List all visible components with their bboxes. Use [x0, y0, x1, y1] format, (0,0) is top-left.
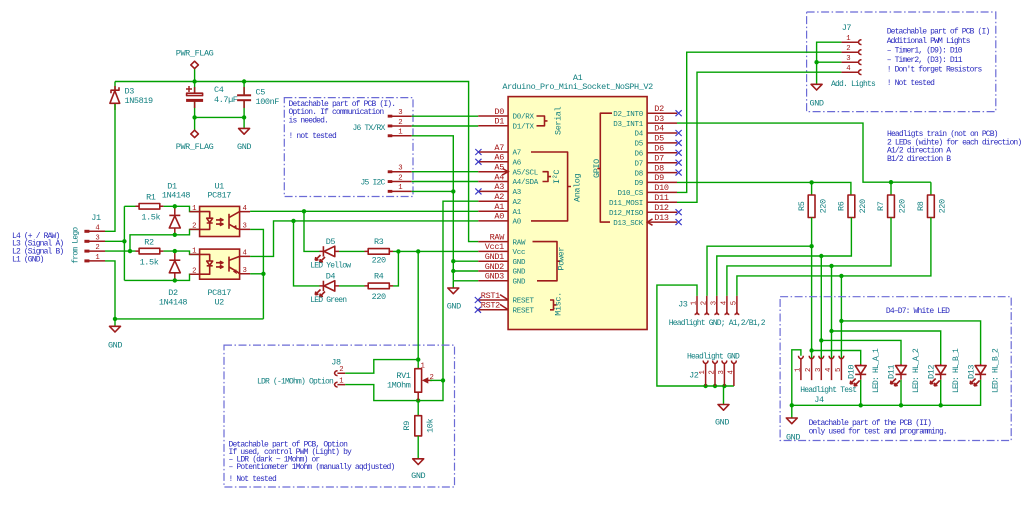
- svg-text:only used for test and program: only used for test and programming.: [809, 428, 947, 437]
- wire R1 to U1 pin1: [163, 206, 199, 211]
- ground GND below Arduino GND pins: [447, 281, 461, 312]
- svg-text:B1/2 direction B: B1/2 direction B: [887, 155, 951, 164]
- svg-text:1MOhm: 1MOhm: [387, 381, 411, 391]
- svg-text:Analog: Analog: [572, 173, 582, 202]
- power flag PWR_FLAG bottom: [176, 130, 214, 152]
- junction A1 to D5 branch: [302, 209, 306, 213]
- connector J8: [331, 357, 345, 387]
- svg-text:3: 3: [710, 301, 718, 305]
- svg-text:2: 2: [339, 366, 343, 374]
- junction J2 rail pin2: [713, 384, 717, 388]
- no-connect x at A6: [475, 159, 481, 165]
- svg-text:1: 1: [95, 254, 100, 262]
- junction GND at x115: [113, 317, 117, 321]
- junction Signal B at J1 pin2: [128, 249, 132, 253]
- wire net Vcc: [393, 250, 478, 252]
- wire net A1 from U1 pin4: [250, 210, 478, 212]
- svg-text:1: 1: [699, 370, 707, 375]
- svg-text:220: 220: [372, 255, 386, 265]
- svg-text:D2: D2: [654, 104, 664, 114]
- svg-text:RV1: RV1: [396, 371, 410, 381]
- svg-text:A3: A3: [494, 182, 504, 192]
- capacitor C4 4.7uF: [186, 85, 238, 108]
- svg-text:PC817: PC817: [207, 288, 231, 298]
- svg-text:! Not tested: ! Not tested: [887, 79, 935, 88]
- svg-text:5: 5: [730, 301, 738, 305]
- LED D12 HL_B_1: [926, 348, 960, 393]
- svg-text:D3: D3: [125, 86, 135, 96]
- svg-text:A7: A7: [513, 150, 522, 158]
- wire R4 up to Vcc: [393, 251, 398, 286]
- resistor R7 220: [876, 195, 908, 218]
- svg-text:3: 3: [95, 234, 99, 242]
- A1 group bracket GPIO: [592, 113, 612, 222]
- wire net D3 to R7 R8 rail: [677, 123, 931, 195]
- wire ground stub J2: [723, 386, 725, 405]
- junction J7 GND: [814, 60, 818, 64]
- svg-text:1: 1: [846, 35, 851, 43]
- wire RV1 wiper to bottom node: [418, 380, 443, 400]
- svg-text:1: 1: [398, 129, 403, 137]
- svg-text:A7: A7: [494, 143, 504, 153]
- junction GND vertical at GND1: [451, 259, 455, 263]
- svg-text:D10: D10: [654, 183, 669, 193]
- svg-text:GND: GND: [447, 302, 461, 312]
- svg-text:1: 1: [192, 205, 197, 213]
- note text Lego wire legend: [12, 232, 63, 265]
- svg-text:D7: D7: [634, 160, 643, 168]
- svg-text:Add. Lights: Add. Lights: [831, 80, 876, 89]
- wire net D0 from J6 pin3: [412, 115, 479, 117]
- LED D10 HL_A_1: [846, 348, 880, 393]
- junction D9 rail at R5: [809, 180, 813, 184]
- diode D1 1N4148: [162, 181, 191, 235]
- junction J2 rail pin3: [722, 384, 726, 388]
- wire net Signal B: [105, 229, 200, 251]
- junction rail at D11: [899, 403, 903, 407]
- svg-text:2: 2: [709, 370, 717, 374]
- connector J2: [689, 361, 736, 387]
- junction Signal A at J1 pin3: [122, 239, 126, 243]
- A1 pin names right: [609, 111, 644, 228]
- svg-text:from Lego: from Lego: [72, 227, 81, 264]
- no-connect x at D4: [676, 130, 682, 136]
- no-connect x at D13: [676, 219, 682, 225]
- svg-text:Detachable part of PCB (I): Detachable part of PCB (I): [887, 27, 990, 36]
- svg-text:A6: A6: [513, 160, 522, 168]
- svg-text:1N4148: 1N4148: [162, 190, 191, 200]
- svg-text:A1: A1: [513, 209, 522, 217]
- svg-text:D4: D4: [654, 124, 664, 134]
- svg-text:GND: GND: [786, 433, 800, 443]
- connector J1: [84, 213, 105, 262]
- wire J7 pin1 and pin3 to GND: [817, 42, 842, 84]
- svg-text:Headlight GND; A1,2/B1,2: Headlight GND; A1,2/B1,2: [669, 319, 766, 328]
- svg-text:D12: D12: [926, 365, 936, 379]
- junction C4 bottom: [192, 115, 196, 119]
- svg-text:L1 (GND): L1 (GND): [12, 256, 44, 265]
- note text detachable PWM lights: [887, 27, 990, 88]
- svg-text:1.5k: 1.5k: [140, 257, 159, 267]
- wire D5 to R3: [339, 250, 365, 252]
- resistor R3 220: [365, 237, 394, 265]
- svg-text:C5: C5: [256, 87, 266, 97]
- no-connect x at RST1: [475, 297, 481, 303]
- diode D2 1N4148: [159, 251, 188, 308]
- junction R5 net at D10 branch: [809, 348, 813, 352]
- svg-text:3: 3: [398, 109, 402, 117]
- svg-text:4: 4: [825, 367, 833, 372]
- svg-text:2: 2: [846, 45, 850, 53]
- svg-text:1: 1: [192, 248, 197, 256]
- svg-text:2: 2: [398, 174, 402, 182]
- A1 group bracket Power: [533, 242, 567, 281]
- svg-text:4: 4: [727, 370, 735, 375]
- ground GND in J4 box: [786, 418, 800, 443]
- clock chevron at pin D13: [647, 219, 652, 225]
- junction RV1 bottom node: [416, 398, 420, 402]
- resistor R4 220: [365, 271, 394, 302]
- junction D2 bottom: [173, 278, 177, 282]
- svg-text:J5 I2C: J5 I2C: [360, 179, 385, 188]
- svg-text:R6: R6: [836, 201, 846, 211]
- ground GND below J2: [715, 405, 729, 428]
- svg-text:3: 3: [398, 165, 402, 173]
- svg-text:2: 2: [398, 119, 402, 127]
- svg-text:LED: HL_B_2: LED: HL_B_2: [992, 348, 1001, 393]
- svg-text:GND: GND: [108, 341, 122, 351]
- svg-text:1: 1: [421, 362, 426, 370]
- svg-text:2: 2: [192, 223, 196, 231]
- LED D5 yellow: [310, 237, 351, 271]
- svg-text:2: 2: [700, 301, 708, 305]
- A1 right pins: [647, 113, 677, 222]
- LED D13 HL_B_2: [966, 348, 1000, 393]
- svg-text:A4/SDA: A4/SDA: [513, 179, 539, 187]
- wire net A2 to RV1 wiper: [443, 201, 478, 380]
- svg-text:100nF: 100nF: [256, 97, 280, 107]
- svg-text:PC817: PC817: [207, 190, 231, 200]
- wire R7 net to J3 pin4 and J4: [727, 218, 941, 365]
- wire net GND bottom-left: [105, 261, 263, 326]
- svg-text:– Timer2, (D3): D11: – Timer2, (D3): D11: [887, 56, 963, 65]
- wire R8 net to J3 pin5 and J4: [737, 218, 981, 365]
- svg-text:D1: D1: [494, 117, 504, 127]
- LED D11 HL_A_2: [887, 348, 921, 393]
- junction R6 net split: [819, 254, 823, 258]
- junction J2 rail pin1: [703, 384, 707, 388]
- svg-text:LED: HL_A_2: LED: HL_A_2: [912, 348, 921, 393]
- svg-text:LDR (-1MOhm) Option: LDR (-1MOhm) Option: [257, 377, 334, 386]
- dashed option box J8 LDR: [224, 345, 455, 487]
- net label RST2 with tail: [481, 301, 508, 311]
- svg-text:J7: J7: [842, 23, 852, 33]
- svg-text:2: 2: [95, 244, 99, 252]
- svg-text:D11: D11: [654, 193, 669, 203]
- svg-text:4: 4: [720, 300, 728, 305]
- svg-text:A4: A4: [494, 172, 504, 182]
- svg-text:D8: D8: [654, 163, 664, 173]
- wire RAW top rail: [115, 68, 478, 241]
- svg-text:1: 1: [398, 184, 403, 192]
- svg-text:1N5819: 1N5819: [125, 96, 154, 106]
- wire net A0 from U2 pin4: [250, 221, 478, 257]
- svg-text:D13: D13: [966, 365, 976, 379]
- junction rail at D10: [859, 403, 863, 407]
- svg-text:D6: D6: [634, 151, 643, 159]
- svg-text:D5: D5: [634, 141, 643, 149]
- svg-text:Headlight GND: Headlight GND: [687, 353, 740, 362]
- svg-text:GND3: GND3: [485, 272, 504, 282]
- junction R5 net at J3 branch: [809, 244, 813, 248]
- svg-text:D0: D0: [494, 107, 504, 117]
- no-connect x at D6: [676, 150, 682, 156]
- svg-text:R5: R5: [797, 201, 807, 211]
- svg-text:GND: GND: [411, 471, 425, 481]
- svg-text:D0/RX: D0/RX: [513, 114, 535, 122]
- connector J7: [841, 23, 861, 74]
- svg-text:10k: 10k: [426, 418, 436, 432]
- junction Vcc at RV1 riser: [416, 249, 420, 253]
- junction RV1 top: [416, 357, 420, 361]
- wire J5 pin1 to GND vertical: [412, 190, 454, 192]
- wire ground stub J4: [791, 405, 793, 418]
- junction rail at D12: [939, 403, 943, 407]
- svg-text:D8: D8: [634, 170, 643, 178]
- svg-text:1: 1: [691, 300, 699, 305]
- junction C5 bottom: [242, 115, 246, 119]
- wire Vcc down to RV1 pin1: [417, 251, 419, 368]
- svg-text:4: 4: [243, 250, 248, 258]
- connector J6 TX/RX: [352, 109, 411, 137]
- dashed option box J6/J5: [284, 98, 413, 197]
- wire net D11 to J7 pin4: [677, 72, 841, 202]
- svg-text:3: 3: [243, 267, 247, 275]
- svg-text:GND: GND: [513, 259, 527, 267]
- connector J5 I2C: [360, 165, 411, 193]
- dashed option box J7: [807, 12, 996, 112]
- svg-text:4: 4: [243, 205, 248, 213]
- svg-text:LED: HL_A_1: LED: HL_A_1: [872, 348, 881, 393]
- wire net Signal A: [105, 206, 200, 280]
- A1 pin names left: [513, 114, 539, 316]
- wire R9 to GND: [417, 436, 419, 459]
- svg-text:PWR_FLAG: PWR_FLAG: [176, 142, 214, 152]
- connector J4: [794, 356, 843, 380]
- A1 group bracket Serial: [537, 106, 564, 135]
- ground GND near C5: [237, 128, 251, 152]
- svg-text:R8: R8: [916, 201, 926, 211]
- svg-text:GND1: GND1: [485, 252, 504, 262]
- junction A0 to D4 branch: [291, 219, 295, 223]
- svg-text:RST1: RST1: [481, 291, 500, 301]
- dashed option box J4 white LEDs: [780, 297, 1011, 441]
- svg-text:GND: GND: [237, 142, 251, 152]
- svg-text:! Not tested: ! Not tested: [229, 475, 277, 484]
- wire RV1 node to R9: [417, 401, 419, 416]
- svg-text:D3_INT1: D3_INT1: [613, 121, 644, 129]
- wire D11 LED cathode to rail: [900, 380, 902, 406]
- svg-text:3: 3: [718, 370, 726, 374]
- wire R6 net to J3 pin3 and J4: [717, 218, 901, 365]
- wire net D1 from J6 pin2: [412, 125, 479, 127]
- resistor R6 220: [836, 195, 868, 218]
- svg-text:R4: R4: [374, 271, 384, 281]
- svg-text:RESET: RESET: [513, 308, 535, 316]
- svg-text:GPIO: GPIO: [592, 159, 602, 178]
- junction D1 top: [173, 204, 177, 208]
- svg-text:J3: J3: [678, 299, 688, 309]
- svg-text:J4: J4: [814, 395, 824, 405]
- no-connect x at D7: [676, 160, 682, 166]
- wire U1 pin3 to GND: [250, 229, 263, 319]
- svg-text:D4: D4: [326, 271, 336, 281]
- svg-text:D4: D4: [634, 131, 643, 139]
- note text detachable PCB II: [809, 419, 947, 436]
- A1 group bracket Analog: [531, 152, 582, 221]
- svg-text:U2: U2: [214, 298, 224, 308]
- svg-text:A6: A6: [494, 153, 504, 163]
- no-connect x at A7: [475, 149, 481, 155]
- wire net A5 from J5 pin3: [412, 171, 479, 173]
- ground GND in J7 box: [810, 84, 824, 108]
- LED D4 green: [310, 271, 347, 305]
- svg-text:Headlight Test: Headlight Test: [800, 386, 856, 395]
- wire net D10 to J7 pin2: [677, 52, 841, 192]
- svg-text:D5: D5: [654, 134, 664, 144]
- resistor R2 1.5k: [136, 237, 164, 267]
- svg-text:A5/SCL: A5/SCL: [513, 169, 539, 177]
- svg-text:D2_INT0: D2_INT0: [613, 111, 644, 119]
- svg-text:Additional PWM Lights: Additional PWM Lights: [887, 37, 971, 46]
- resistor R1 1.5k: [136, 193, 164, 223]
- transistor opto U2 PC817: [190, 248, 251, 308]
- svg-text:Vcc1: Vcc1: [485, 242, 504, 252]
- svg-text:5: 5: [835, 368, 843, 372]
- svg-text:D5: D5: [326, 237, 336, 247]
- ground GND bottom-left: [108, 326, 122, 350]
- svg-text:RESET: RESET: [513, 298, 535, 306]
- svg-text:1: 1: [339, 377, 344, 385]
- wire branch to LED D4: [294, 221, 320, 286]
- svg-text:LED Green: LED Green: [310, 296, 347, 305]
- junction RAW rail at C4: [192, 79, 196, 83]
- svg-text:R9: R9: [402, 421, 412, 431]
- A1 group bracket I2C: [543, 170, 563, 184]
- svg-text:RST2: RST2: [481, 301, 500, 311]
- svg-text:C4: C4: [214, 85, 224, 95]
- wire net A4 from J5 pin2: [412, 181, 479, 183]
- svg-text:3: 3: [815, 368, 823, 372]
- svg-text:D10: D10: [846, 365, 856, 379]
- svg-text:– Timer1, (D9): D10: – Timer1, (D9): D10: [887, 46, 963, 55]
- svg-text:! not tested: ! not tested: [289, 132, 337, 141]
- svg-text:D12_MISO: D12_MISO: [609, 210, 644, 218]
- wire net D9 to R5 R6 rail: [677, 182, 851, 195]
- note text headlights train: [887, 130, 1021, 164]
- note text detachable PCB I communication: [289, 100, 396, 141]
- svg-text:D4–D7: White LED: D4–D7: White LED: [886, 307, 950, 316]
- svg-text:D3: D3: [654, 114, 664, 124]
- svg-text:Power: Power: [557, 247, 567, 271]
- wire J3 pin1 to J2 ground rail: [657, 285, 734, 386]
- input chevron at pin A5: [503, 169, 509, 175]
- svg-text:D6: D6: [654, 144, 664, 154]
- svg-text:D7: D7: [654, 153, 664, 163]
- wire GND1 stub: [453, 260, 478, 262]
- no-connect x at A3: [475, 188, 481, 194]
- svg-text:A0: A0: [494, 212, 504, 222]
- svg-text:A1: A1: [494, 202, 504, 212]
- svg-text:1N4148: 1N4148: [159, 298, 188, 308]
- svg-text:A2: A2: [494, 192, 504, 202]
- svg-text:1: 1: [794, 367, 802, 372]
- resistor R9 10k: [402, 416, 436, 436]
- svg-text:A2: A2: [513, 199, 522, 207]
- wire R5 net to J3 pin2 and J4: [707, 218, 861, 365]
- svg-text:2: 2: [192, 268, 196, 276]
- svg-text:J2: J2: [689, 371, 699, 381]
- junction R8 net at D13 branch: [839, 319, 843, 323]
- svg-text:Serial: Serial: [554, 106, 564, 135]
- net label RST1 with tail: [481, 291, 508, 301]
- svg-text:A0: A0: [513, 219, 522, 227]
- svg-text:220: 220: [898, 199, 908, 213]
- svg-text:D11_MOSI: D11_MOSI: [609, 200, 643, 208]
- no-connect x at RST2: [475, 307, 481, 313]
- svg-text:GND: GND: [810, 98, 824, 108]
- wire U2 pin3 join: [250, 273, 263, 275]
- svg-text:GND: GND: [513, 269, 527, 277]
- svg-text:GND: GND: [715, 418, 729, 428]
- wire R2 to U2 pin1: [163, 251, 199, 254]
- svg-text:! Don't forget Resistors: ! Don't forget Resistors: [887, 65, 983, 74]
- svg-text:J1: J1: [91, 213, 101, 223]
- no-connect x at D8: [676, 170, 682, 176]
- svg-text:1.5k: 1.5k: [141, 213, 160, 223]
- svg-text:LED: HL_B_1: LED: HL_B_1: [952, 348, 961, 393]
- junction D1 bottom: [173, 233, 177, 237]
- svg-text:LED Yellow: LED Yellow: [310, 261, 351, 270]
- junction RAW rail at C5: [242, 79, 246, 83]
- svg-text:D12: D12: [654, 203, 669, 213]
- svg-text:3: 3: [243, 223, 247, 231]
- svg-text:J6 TX/RX: J6 TX/RX: [352, 124, 385, 133]
- svg-text:D2: D2: [168, 288, 178, 298]
- svg-text:D13: D13: [654, 213, 669, 223]
- junction R7 net at D12 branch: [829, 329, 833, 333]
- svg-text:Arduino_Pro_Mini_Socket_NoSPH_: Arduino_Pro_Mini_Socket_NoSPH_V2: [502, 82, 653, 92]
- svg-text:PWR_FLAG: PWR_FLAG: [176, 49, 214, 59]
- svg-text:Misc.: Misc.: [553, 292, 563, 316]
- svg-text:R1: R1: [146, 193, 156, 203]
- A1 left pins: [478, 116, 508, 310]
- IC A1 Arduino_Pro_Mini_Socket_NoSPH_V2: [502, 73, 653, 329]
- svg-text:220: 220: [858, 199, 868, 213]
- svg-text:4.7µF: 4.7µF: [214, 95, 238, 105]
- svg-text:D1/TX: D1/TX: [513, 124, 535, 132]
- svg-text:D9: D9: [654, 173, 664, 183]
- svg-text:is needed.: is needed.: [289, 117, 329, 126]
- junction RV1 wiper: [441, 378, 445, 382]
- no-connect x at D2: [676, 110, 682, 116]
- svg-text:220: 220: [938, 199, 948, 213]
- svg-text:– Potentiometer 1Mohm (manuall: – Potentiometer 1Mohm (manually aqdjuste…: [229, 463, 395, 472]
- diode D3 1N5819: [110, 86, 153, 110]
- junction R6 net at D11 branch: [819, 338, 823, 342]
- transistor opto U1 PC817: [190, 181, 251, 236]
- wire D10 LED cathode to rail: [860, 380, 862, 406]
